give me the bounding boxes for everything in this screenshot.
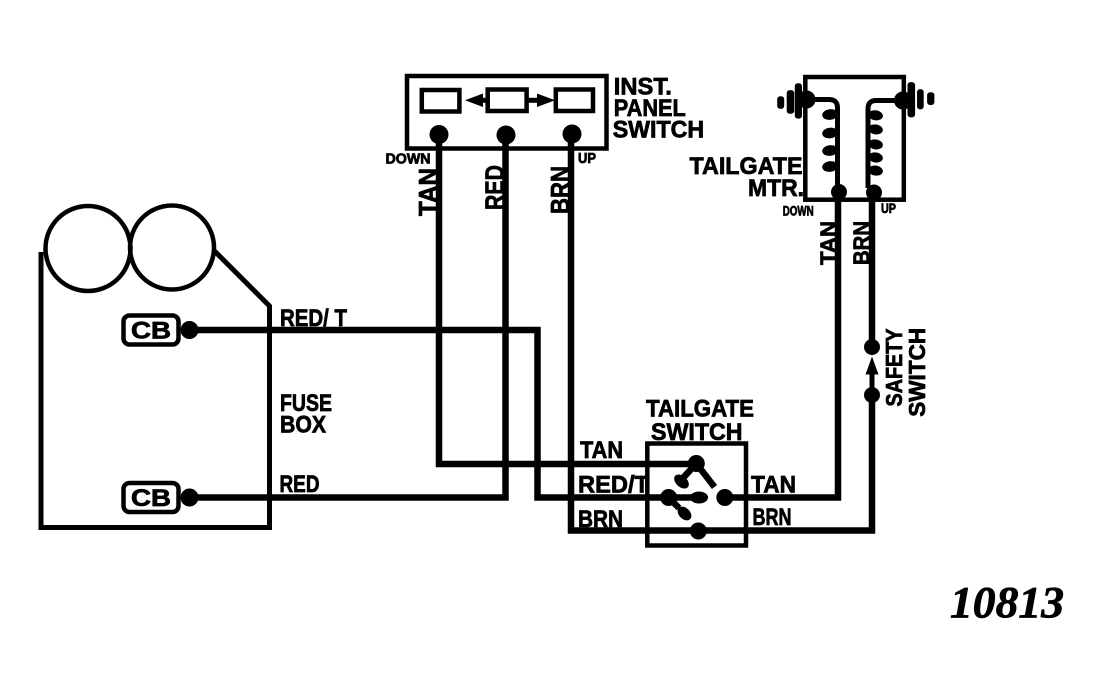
wiper arm right xyxy=(696,464,714,488)
safety switch lower contact dot xyxy=(864,387,880,403)
svg-text:SWITCH: SWITCH xyxy=(651,419,743,446)
safety switch upper contact dot xyxy=(864,339,880,355)
fuse box circle right xyxy=(130,206,214,290)
svg-text:BOX: BOX xyxy=(280,412,326,439)
wire TAN right: tailgate switch to motor xyxy=(725,199,838,498)
terminal dot DOWN (TAN) xyxy=(430,125,449,144)
svg-text:BRN: BRN xyxy=(578,506,623,533)
right coil xyxy=(868,101,903,189)
arrow down-right from left contact xyxy=(669,498,679,509)
terminal dot CB1 xyxy=(181,321,199,339)
svg-text:SWITCH: SWITCH xyxy=(613,117,705,144)
terminal dot center (RED) xyxy=(497,126,516,145)
wire RED/T: fuse box to tailgate switch xyxy=(195,330,669,498)
terminal dot UP (BRN) xyxy=(563,125,582,144)
svg-text:MTR.: MTR. xyxy=(748,175,804,202)
button UP position xyxy=(556,90,593,112)
svg-text:BRN: BRN xyxy=(849,221,874,265)
svg-text:RED/ T: RED/ T xyxy=(280,305,347,332)
svg-text:CB: CB xyxy=(131,318,171,345)
contact right xyxy=(716,489,733,506)
motor terminal dot right xyxy=(894,92,912,110)
wire BRN: inst panel switch to tailgate switch and motor xyxy=(571,134,872,531)
svg-text:CB: CB xyxy=(131,485,171,512)
button DOWN position xyxy=(422,90,460,112)
tailgate motor M1 xyxy=(690,77,935,265)
svg-text:SWITCH: SWITCH xyxy=(904,328,930,417)
arrow right xyxy=(527,98,537,103)
safety switch arrow contact xyxy=(866,357,879,375)
arrow right from left contact xyxy=(669,494,692,501)
circuit breaker CB2 xyxy=(124,483,179,512)
svg-text:BRN: BRN xyxy=(753,504,792,531)
svg-text:RED: RED xyxy=(280,471,320,498)
svg-text:TAN: TAN xyxy=(413,168,443,216)
svg-text:TAN: TAN xyxy=(751,472,796,499)
arrow left xyxy=(478,98,488,103)
left coil xyxy=(807,100,838,189)
contact top xyxy=(688,455,705,472)
circuit breaker CB1 xyxy=(124,316,179,345)
inst panel switch body xyxy=(407,76,607,149)
motor terminal dot left xyxy=(798,91,816,109)
svg-text:10813: 10813 xyxy=(950,578,1064,627)
left coil bottom dot xyxy=(831,184,847,200)
wire TAN: inst panel switch to tailgate switch xyxy=(439,134,696,464)
svg-text:UP: UP xyxy=(881,200,896,216)
ground right xyxy=(908,82,916,117)
wire RED: fuse box to inst panel switch xyxy=(195,135,506,498)
fuse box circle left xyxy=(46,206,131,291)
svg-text:RED/T: RED/T xyxy=(578,472,649,499)
contact bottom xyxy=(690,523,707,540)
safety switch S1 xyxy=(864,328,930,417)
ground left xyxy=(777,96,784,109)
tailgate switch S2 xyxy=(578,396,796,546)
motor body xyxy=(805,77,904,200)
right coil bottom dot xyxy=(866,185,882,201)
wiper arm left xyxy=(683,464,696,479)
svg-text:RED: RED xyxy=(480,165,510,210)
fuse box outline xyxy=(41,251,270,528)
inst panel switch xyxy=(386,74,705,217)
button center position xyxy=(488,90,527,112)
svg-text:TAN: TAN xyxy=(816,221,841,265)
svg-text:BRN: BRN xyxy=(545,166,575,214)
tailgate switch body xyxy=(647,444,746,546)
wire BRN upper: motor to safety switch xyxy=(869,199,876,347)
svg-text:DOWN: DOWN xyxy=(386,152,431,168)
terminal dot CB2 xyxy=(181,489,199,507)
svg-text:TAN: TAN xyxy=(580,437,623,464)
contact left xyxy=(660,489,677,506)
svg-text:DOWN: DOWN xyxy=(783,203,814,219)
svg-text:UP: UP xyxy=(578,151,596,167)
